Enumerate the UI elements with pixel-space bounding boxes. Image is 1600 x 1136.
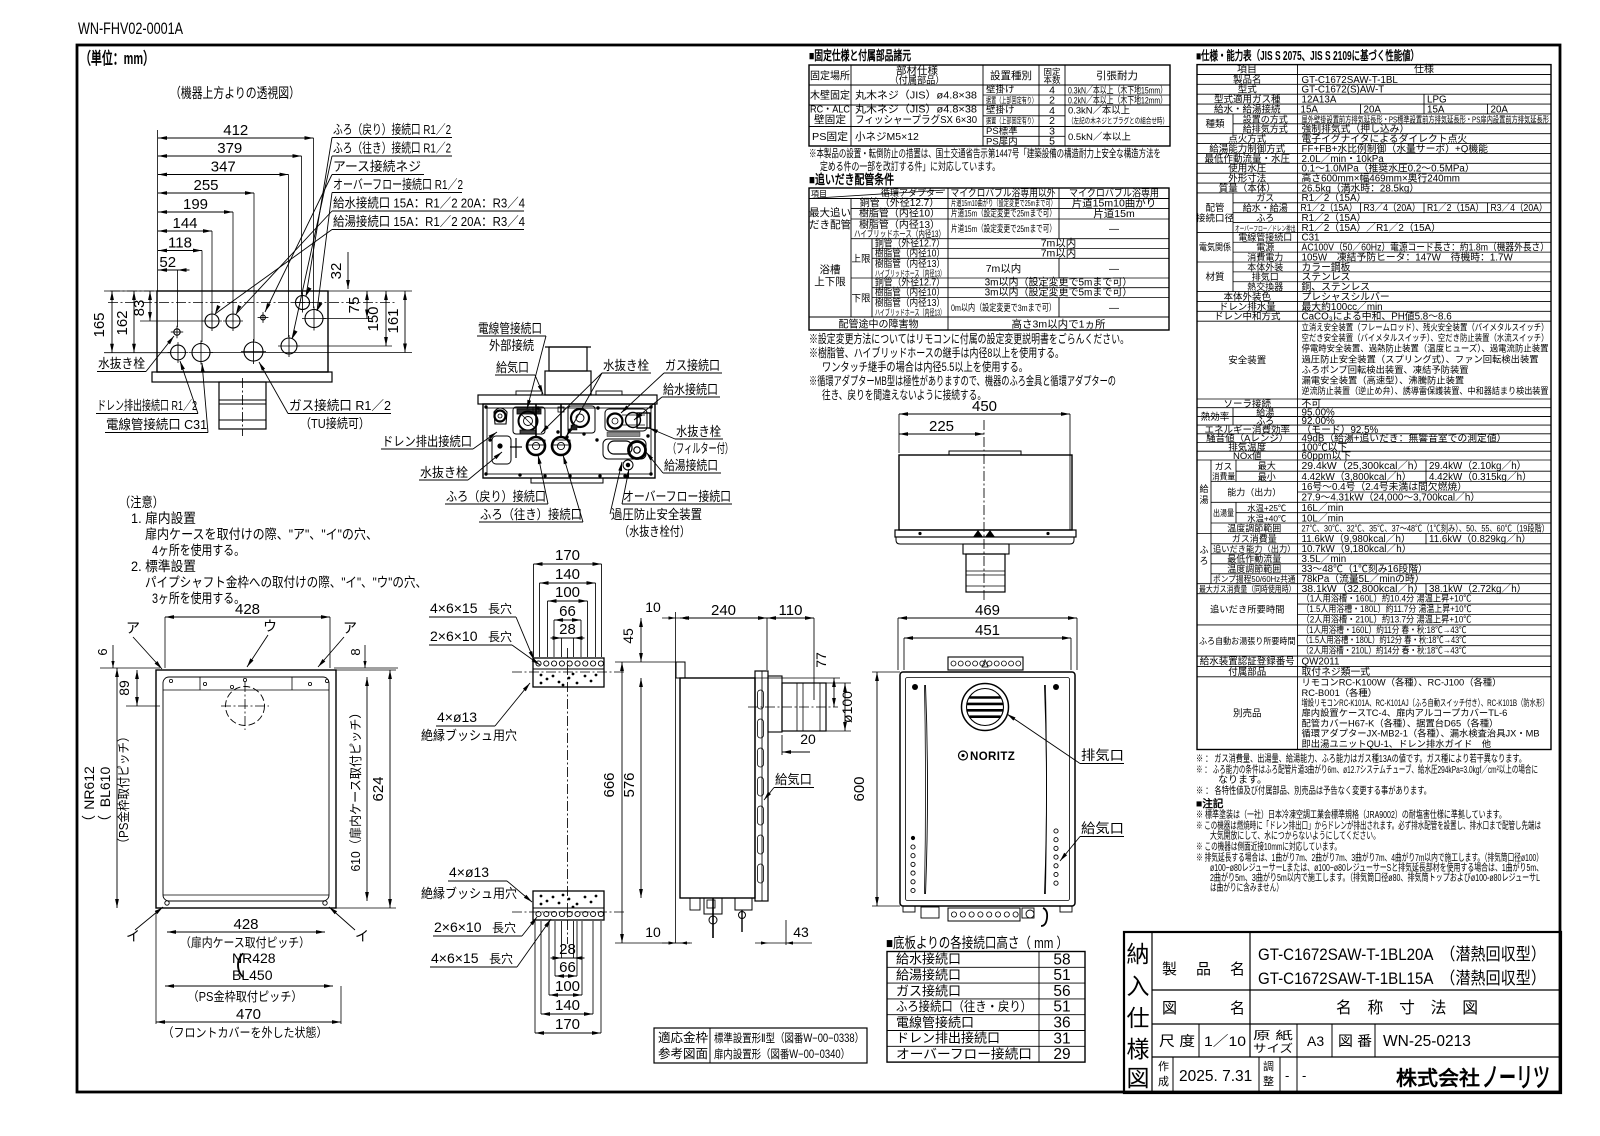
svg-text:上限: 上限 — [851, 254, 871, 265]
svg-text:なります。: なります。 — [1218, 774, 1267, 786]
svg-text:（1人用浴槽・160L）約10.4分 湯温上昇+10℃: （1人用浴槽・160L）約10.4分 湯温上昇+10℃ — [1302, 593, 1472, 604]
svg-text:水抜き栓: 水抜き栓 — [603, 358, 649, 373]
spec block hot water supply — [1197, 459, 1551, 461]
plate bottom dim 28 — [551, 957, 585, 959]
svg-text:尺 度: 尺 度 — [1159, 1033, 1195, 1049]
svg-text:118: 118 — [168, 235, 192, 252]
svg-text:2×6×10: 2×6×10 — [430, 628, 478, 644]
bottom plate slots — [536, 911, 541, 916]
svg-text:ガス接続口: ガス接続口 — [665, 358, 720, 373]
svg-text:出湯量: 出湯量 — [1213, 507, 1234, 518]
plate top dim 66 — [554, 619, 581, 621]
svg-text:ガス: ガス — [1256, 193, 1274, 203]
spec row certification — [1197, 655, 1551, 657]
svg-text:成: 成 — [1158, 1075, 1169, 1088]
svg-text:電線管接続口: 電線管接続口 — [478, 321, 542, 336]
front bottom fittings — [921, 907, 939, 918]
svg-text:参考図面: 参考図面 — [658, 1046, 708, 1061]
svg-text:ドレン排出接続口: ドレン排出接続口 — [896, 1031, 1000, 1046]
svg-text:92.00%: 92.00% — [1302, 416, 1336, 427]
spec block electric — [1197, 231, 1551, 233]
svg-text:ドレン排出接続口: ドレン排出接続口 — [382, 434, 472, 449]
svg-text:消費量: 消費量 — [1212, 470, 1235, 481]
svg-text:オーバーフロー／ドレン排出: オーバーフロー／ドレン排出 — [1235, 224, 1296, 233]
svg-text:※ ： ガス消費量、出湯量、給湯能力、ふろ能力はガス種13A: ※ ： ガス消費量、出湯量、給湯能力、ふろ能力はガス種13Aの値です。ガス種によ… — [1196, 752, 1526, 765]
svg-text:片道15m（設定変更で25mまで可）: 片道15m（設定変更で25mまで可） — [951, 208, 1056, 220]
svg-text:66: 66 — [559, 603, 576, 620]
svg-text:ろ: ろ — [1199, 556, 1208, 566]
svg-text:仕様: 仕様 — [1414, 62, 1434, 75]
top plate slots — [536, 661, 541, 666]
front-open view top strip — [163, 689, 329, 691]
svg-text:ワンタッチ継手の場合は内径5.5以上を使用する。: ワンタッチ継手の場合は内径5.5以上を使用する。 — [822, 359, 1028, 374]
front dim 600 — [876, 672, 878, 906]
piping table grid — [809, 188, 1169, 330]
svg-text:湯: 湯 — [1199, 495, 1208, 505]
svg-text:ア: ア — [343, 620, 357, 636]
svg-text:162: 162 — [114, 310, 131, 335]
svg-text:170: 170 — [555, 1016, 580, 1033]
plan hole drain plug small — [174, 329, 180, 335]
svg-text:長穴: 長穴 — [489, 951, 513, 966]
pictorial comp right assembly top — [605, 409, 647, 431]
svg-text:■底板よりの各接続口高さ（ mm ）: ■底板よりの各接続口高さ（ mm ） — [886, 934, 1068, 952]
svg-text:GT-C1672SAW-T-1BL20A （潜熱回収型）: GT-C1672SAW-T-1BL20A （潜熱回収型） — [1258, 945, 1546, 964]
svg-text:長穴: 長穴 — [488, 629, 512, 644]
title block row drawing name — [1152, 1023, 1561, 1025]
svg-text:4.42kW（3,800kcal／h）: 4.42kW（3,800kcal／h） — [1302, 471, 1412, 483]
svg-text:ハイブリッドホース（内径13）: ハイブリッドホース（内径13） — [854, 228, 945, 239]
svg-text:ノーリツ: ノーリツ — [1482, 1063, 1550, 1093]
pictorial comp mizunuki left — [492, 436, 511, 464]
plan dim reference extension line — [157, 130, 159, 291]
svg-text:ガス: ガス — [1215, 461, 1233, 471]
front-open dim 470 — [156, 1021, 341, 1023]
spec row 給湯能力制御方式 — [1197, 143, 1551, 145]
svg-text:1／10: 1／10 — [1204, 1033, 1246, 1049]
svg-text:4×ø13: 4×ø13 — [437, 709, 477, 725]
svg-text:A3: A3 — [1307, 1033, 1324, 1049]
svg-text:7m以内: 7m以内 — [1041, 246, 1077, 259]
svg-text:オーバーフロー接続口: オーバーフロー接続口 — [896, 1047, 1032, 1062]
front-open view dim 428 top — [165, 616, 330, 618]
svg-text:適応金枠: 適応金枠 — [658, 1030, 709, 1045]
svg-text:消費電力: 消費電力 — [1247, 251, 1283, 262]
svg-text:110: 110 — [779, 602, 803, 619]
spec block bath — [1197, 533, 1551, 535]
plate bottom dim 66 — [555, 975, 577, 977]
svg-text:77: 77 — [813, 652, 829, 668]
svg-text:電線管接続口: 電線管接続口 — [896, 1015, 974, 1030]
spec row connection size — [1197, 103, 1551, 105]
title block row product name — [1152, 989, 1561, 991]
svg-text:小ネジM5×12: 小ネジM5×12 — [855, 131, 919, 143]
svg-text:給気口: 給気口 — [775, 772, 812, 787]
svg-text:水抜き栓: 水抜き栓 — [420, 465, 468, 480]
side view front cover — [755, 671, 768, 901]
svg-text:※樹脂管、ハイブリッドホースの継手は内径8以上を使用する。: ※樹脂管、ハイブリッドホースの継手は内径8以上を使用する。 — [809, 345, 1064, 360]
svg-text:（1.5人用浴槽・180L）約11.7分 湯温上昇+10℃: （1.5人用浴槽・180L）約11.7分 湯温上昇+10℃ — [1302, 603, 1472, 614]
title block vertical label — [1151, 932, 1153, 1093]
svg-text:電気関係: 電気関係 — [1199, 242, 1231, 254]
svg-text:設置の方式: 設置の方式 — [1243, 113, 1288, 124]
svg-text:16L／min: 16L／min — [1302, 502, 1344, 514]
svg-text:空だき安全装置（バイメタルスイッチ）、空だき防止装置（水流ス: 空だき安全装置（バイメタルスイッチ）、空だき防止装置（水流スイッチ） — [1302, 332, 1549, 343]
svg-text:51: 51 — [1053, 967, 1070, 984]
svg-text:（機器上方よりの透視図）: （機器上方よりの透視図） — [170, 85, 300, 101]
svg-text:0m以内（設定変更で3mまで可）: 0m以内（設定変更で3mまで可） — [951, 302, 1056, 314]
svg-text:（単位：mm）: （単位：mm） — [80, 48, 154, 68]
svg-text:強制排気式（押し込み）: 強制排気式（押し込み） — [1302, 122, 1410, 135]
svg-text:（2人用浴槽・210L）約14分 春・秋:18℃→43℃: （2人用浴槽・210L）約14分 春・秋:18℃→43℃ — [1302, 645, 1467, 656]
plan dim 161 — [404, 291, 406, 353]
svg-text:255: 255 — [193, 177, 218, 194]
front body outline — [900, 672, 1075, 906]
svg-text:給水接続口 15A：R1／2 20A：R3／4: 給水接続口 15A：R1／2 20A：R3／4 — [333, 196, 525, 211]
top view top tab — [949, 451, 1021, 455]
svg-text:ふろポンプ回転検出装置、凍結予防装置: ふろポンプ回転検出装置、凍結予防装置 — [1302, 364, 1469, 375]
svg-text:本数: 本数 — [1043, 75, 1061, 85]
svg-text:58: 58 — [1053, 951, 1070, 968]
svg-text:3ヶ所を使用する。: 3ヶ所を使用する。 — [152, 590, 245, 606]
front crease right — [1045, 685, 1047, 894]
svg-text:外部接続: 外部接続 — [489, 338, 534, 353]
svg-text:ハイブリッドホース（内径13）: ハイブリッドホース（内径13） — [875, 308, 945, 318]
svg-text:壁掛け: 壁掛け — [986, 104, 1015, 116]
svg-text:451: 451 — [975, 622, 1000, 639]
svg-text:6: 6 — [95, 648, 110, 655]
svg-text:BL610: BL610 — [97, 767, 113, 808]
svg-text:停電時安全装置、過熱防止装置（温度ヒューズ）、過電流防止装置: 停電時安全装置、過熱防止装置（温度ヒューズ）、過電流防止装置 — [1302, 343, 1549, 354]
svg-text:（注意）: （注意） — [119, 494, 164, 510]
svg-text:循環アダプター: 循環アダプター — [881, 187, 944, 198]
svg-text:イ: イ — [126, 928, 140, 944]
svg-text:（水抜き栓付）: （水抜き栓付） — [619, 524, 690, 539]
svg-text:8: 8 — [348, 648, 363, 655]
svg-text:片道15m（設定変更で25mまで可）: 片道15m（設定変更で25mまで可） — [951, 223, 1056, 235]
svg-text:R1／2（15A）: R1／2（15A） — [1427, 202, 1484, 214]
svg-text:壁掛け: 壁掛け — [986, 84, 1015, 96]
side view body — [680, 678, 755, 898]
svg-text:水抜き栓: 水抜き栓 — [98, 356, 145, 371]
plan right extension lines — [328, 290, 412, 292]
svg-text:図: 図 — [1162, 1000, 1177, 1017]
svg-text:4ヶ所を使用する。: 4ヶ所を使用する。 — [152, 542, 245, 558]
bottom mounting plate — [533, 891, 604, 920]
plan view centerline duct — [242, 378, 244, 436]
svg-text:パイプシャフト金枠への取付けの際、"イ"、"ウ"の穴、: パイプシャフト金枠への取付けの際、"イ"、"ウ"の穴、 — [145, 575, 427, 590]
svg-text:絶縁ブッシュ用穴: 絶縁ブッシュ用穴 — [421, 886, 517, 901]
svg-text:ふろ: ふろ — [1256, 213, 1274, 223]
svg-text:ドレン排出接続口 R1／2: ドレン排出接続口 R1／2 — [97, 398, 197, 413]
svg-text:上下限: 上下限 — [814, 276, 846, 288]
svg-text:WN-25-0213: WN-25-0213 — [1383, 1033, 1471, 1050]
svg-text:29.4kW（25,300kcal／h）: 29.4kW（25,300kcal／h） — [1302, 460, 1425, 472]
connection heights table grid — [887, 952, 1085, 1063]
svg-text:増設リモコンRC-K101A、RC-K101AJ（ふろ自動ス: 増設リモコンRC-K101A、RC-K101AJ（ふろ自動スイッチ付き）、RC-… — [1302, 697, 1549, 708]
side view pipe centerline — [748, 706, 838, 708]
svg-text:は曲がりに含みません）: は曲がりに含みません） — [1210, 881, 1283, 894]
svg-text:-: - — [1302, 1068, 1306, 1083]
svg-text:※設定変更方法についてはリモコンに付属の設定変更説明書をごら: ※設定変更方法についてはリモコンに付属の設定変更説明書をごらんください。 — [809, 331, 1129, 346]
plan hole overflow connection — [305, 310, 323, 328]
svg-text:給気口: 給気口 — [1081, 821, 1124, 836]
svg-text:イ: イ — [355, 928, 369, 944]
svg-text:NR612: NR612 — [81, 766, 97, 810]
svg-text:PS固定: PS固定 — [812, 130, 849, 143]
plate top dim 170 — [534, 563, 602, 565]
svg-text:140: 140 — [555, 566, 580, 583]
plan dim 162 — [133, 291, 135, 353]
svg-text:ふろ（往き）接続口 R1／2: ふろ（往き）接続口 R1／2 — [333, 141, 451, 156]
pictorial exhaust collar — [549, 347, 587, 371]
top view dim 450 — [899, 413, 1070, 415]
svg-text:オーバーフロー接続口 R1／2: オーバーフロー接続口 R1／2 — [333, 177, 463, 192]
front dim 451 — [904, 637, 1071, 639]
svg-text:名: 名 — [1230, 1000, 1245, 1017]
svg-text:WN-FHV02-0001A: WN-FHV02-0001A — [78, 20, 183, 38]
plate top dim 100 — [548, 600, 588, 602]
svg-text:ガス消費量: ガス消費量 — [1232, 533, 1277, 544]
svg-text:給: 給 — [1199, 483, 1208, 494]
svg-text:29: 29 — [1053, 1046, 1070, 1063]
svg-text:だき配管: だき配管 — [809, 218, 851, 231]
svg-text:据置（上部固定有り）: 据置（上部固定有り） — [986, 95, 1037, 105]
svg-text:木壁固定: 木壁固定 — [810, 89, 850, 102]
side dim 110 — [767, 617, 814, 619]
fixing table grid — [809, 65, 1170, 146]
svg-text:最小: 最小 — [1258, 472, 1276, 482]
svg-text:電源: 電源 — [1256, 243, 1274, 253]
piping table header diagonal — [809, 190, 945, 199]
svg-text:絶縁ブッシュ用穴: 絶縁ブッシュ用穴 — [421, 728, 517, 743]
svg-text:NR428: NR428 — [232, 950, 276, 966]
svg-text:給湯接続口 15A：R1／2 20A：R3／4: 給湯接続口 15A：R1／2 20A：R3／4 — [333, 214, 525, 229]
svg-text:給水装置認証登録番号: 給水装置認証登録番号 — [1200, 656, 1295, 668]
svg-text:項目: 項目 — [1237, 63, 1257, 75]
svg-text:R1／2（15A）: R1／2（15A） — [1301, 202, 1358, 214]
svg-text:扉内設置形（図番W−00−0340）: 扉内設置形（図番W−00−0340） — [714, 1047, 850, 1061]
svg-text:600: 600 — [851, 776, 868, 801]
svg-text:ふろ（戻り）接続口 R1／2: ふろ（戻り）接続口 R1／2 — [333, 122, 451, 137]
front exhaust ring — [962, 684, 1009, 731]
svg-text:NORITZ: NORITZ — [970, 751, 1015, 763]
svg-text:0.5kN／本以上: 0.5kN／本以上 — [1068, 131, 1131, 143]
svg-text:作: 作 — [1158, 1060, 1169, 1073]
svg-text:漏電安全装置（高速型）、沸騰防止装置: 漏電安全装置（高速型）、沸騰防止装置 — [1302, 375, 1465, 386]
svg-text:屋外壁掛設置前方排気延長形・PS標準設置前方排気延長形・PS: 屋外壁掛設置前方排気延長形・PS標準設置前方排気延長形・PS扉内設置前方排気延長… — [1302, 114, 1550, 124]
spec rows after safety — [1197, 398, 1551, 400]
svg-text:470: 470 — [236, 1006, 261, 1023]
svg-text:給水接続口: 給水接続口 — [663, 382, 718, 397]
svg-text:樹脂管（内径10）: 樹脂管（内径10） — [875, 286, 945, 299]
svg-text:ふろ: ふろ — [1256, 416, 1274, 426]
svg-text:リモコンRC-K100W（各種）、RC-J100（各種）: リモコンRC-K100W（各種）、RC-J100（各種） — [1302, 677, 1502, 688]
plan dim 118 — [158, 250, 202, 252]
svg-text:熱交換器: 熱交換器 — [1247, 281, 1283, 292]
svg-text:ガス接続口 R1／2: ガス接続口 R1／2 — [289, 398, 391, 413]
svg-text:624: 624 — [370, 776, 387, 801]
pictorial comp bath return bib — [527, 437, 545, 455]
svg-text:別売品: 別売品 — [1233, 708, 1262, 720]
spec row 製品名 — [1197, 73, 1551, 75]
svg-text:調: 調 — [1263, 1059, 1274, 1073]
svg-text:排気口: 排気口 — [1252, 271, 1279, 282]
svg-text:納: 納 — [1127, 941, 1150, 967]
svg-text:PS標準: PS標準 — [986, 125, 1018, 137]
svg-text:電線管接続口: 電線管接続口 — [1238, 232, 1292, 243]
svg-text:名: 名 — [1230, 961, 1245, 978]
front dim 469 — [898, 617, 1077, 619]
svg-text:材質: 材質 — [1205, 271, 1224, 283]
front-open dim line left — [116, 668, 118, 908]
svg-text:立消え安全装置（フレームロッド）、残火安全装置（バイメタルス: 立消え安全装置（フレームロッド）、残火安全装置（バイメタルスイッチ） — [1302, 322, 1549, 333]
side dim 240 — [680, 617, 767, 619]
svg-text:161: 161 — [385, 308, 402, 333]
front-open small holes top — [169, 679, 172, 682]
svg-text:※ ： 各特性値及び付属部品、別売品は予告なく変更する事があ: ※ ： 各特性値及び付属部品、別売品は予告なく変更する事があります。 — [1196, 784, 1431, 797]
top view dim 225 — [899, 433, 984, 435]
svg-text:据置（上部固定有り）: 据置（上部固定有り） — [986, 116, 1037, 126]
svg-text:4×6×15: 4×6×15 — [431, 950, 479, 966]
svg-text:配管カバーH67-K（各種）、据置台D65（各種）: 配管カバーH67-K（各種）、据置台D65（各種） — [1302, 717, 1499, 728]
svg-text:名 称 寸 法 図: 名 称 寸 法 図 — [1336, 999, 1478, 1017]
svg-text:排気口: 排気口 — [1081, 748, 1124, 763]
svg-text:-: - — [1285, 1068, 1289, 1083]
spec block material — [1197, 261, 1551, 263]
svg-text:過圧防止安全装置（スプリング式）、ファン回転検出装置: 過圧防止安全装置（スプリング式）、ファン回転検出装置 — [1302, 353, 1539, 364]
spec block piping size — [1197, 192, 1551, 194]
svg-text:150: 150 — [365, 306, 382, 331]
spec row 外形寸法 — [1197, 172, 1551, 174]
svg-text:2025. 7.31: 2025. 7.31 — [1179, 1068, 1252, 1085]
svg-text:熱効率: 熱効率 — [1201, 411, 1230, 423]
svg-text:片道15m: 片道15m — [1093, 207, 1135, 220]
svg-text:140: 140 — [555, 997, 580, 1014]
pictorial comp drain pan — [494, 408, 507, 424]
svg-text:4×ø13: 4×ø13 — [449, 864, 489, 880]
plate bottom dim 100 — [549, 994, 582, 996]
svg-text:給湯接続口: 給湯接続口 — [896, 968, 961, 983]
svg-text:引張耐力: 引張耐力 — [1096, 69, 1138, 82]
svg-text:循環アダプターJX-MB2-1（各種）、漏水検査治具JX・M: 循環アダプターJX-MB2-1（各種）、漏水検査治具JX・MB — [1302, 728, 1540, 739]
svg-text:高さ3m以内で1ヵ所: 高さ3m以内で1ヵ所 — [1012, 318, 1106, 331]
top view flange marks — [973, 530, 983, 537]
pictorial comp bath out bib — [552, 437, 570, 455]
spec block safety devices — [1197, 320, 1551, 322]
svg-text:27.9〜4.31kW（24,000〜3,700kcal／h: 27.9〜4.31kW（24,000〜3,700kcal／h） — [1302, 492, 1481, 504]
pictorial comp right assembly bottom — [603, 439, 646, 459]
pictorial comp cross — [515, 438, 517, 458]
svg-text:（PS金枠取付ピッチ）: （PS金枠取付ピッチ） — [188, 989, 303, 1004]
svg-text:樹脂管（内径10）: 樹脂管（内径10） — [875, 246, 945, 259]
svg-text:―: ― — [1109, 264, 1119, 275]
pictorial bolt dots — [484, 405, 487, 408]
svg-text:定める件の一部を改訂する件」に対応しています。: 定める件の一部を改訂する件」に対応しています。 — [820, 159, 1000, 173]
spec block reheat time — [1197, 593, 1551, 595]
svg-text:BL450: BL450 — [232, 967, 273, 983]
side view bottom fittings — [690, 898, 700, 910]
plate bottom dim 170 — [535, 1032, 601, 1034]
spec rows simple2 — [1197, 291, 1551, 293]
svg-text:水温+25℃: 水温+25℃ — [1247, 503, 1286, 513]
svg-text:100: 100 — [555, 584, 580, 601]
svg-text:（PS金枠取付ピッチ）: （PS金枠取付ピッチ） — [116, 731, 131, 850]
top view duct — [966, 554, 1005, 592]
svg-text:■固定仕様と付属部品諸元: ■固定仕様と付属部品諸元 — [809, 48, 911, 63]
svg-text:往き、戻りを間違えないように接続する。: 往き、戻りを間違えないように接続する。 — [822, 387, 986, 402]
svg-text:給排気方式: 給排気方式 — [1243, 123, 1288, 134]
svg-text:170: 170 — [555, 547, 580, 564]
side view exhaust pipe — [782, 683, 826, 731]
svg-text:最大ガス消費量（同時使用時）: 最大ガス消費量（同時使用時） — [1199, 584, 1296, 594]
svg-text:36: 36 — [1053, 1015, 1070, 1032]
svg-text:様: 様 — [1127, 1036, 1150, 1062]
svg-text:56: 56 — [1053, 983, 1070, 1000]
svg-text:ふろ（往き）接続口: ふろ（往き）接続口 — [480, 507, 582, 522]
plan hole bath out connection — [281, 338, 297, 354]
spec table header divider — [1197, 73, 1551, 75]
svg-text:51: 51 — [1053, 999, 1070, 1016]
plate centerline vertical — [567, 648, 569, 944]
front-open view outer rect — [156, 670, 336, 908]
svg-text:原 紙: 原 紙 — [1253, 1028, 1293, 1042]
svg-text:扉内設置ケースTC-4、扉内アルコープカバーTL-6: 扉内設置ケースTC-4、扉内アルコープカバーTL-6 — [1302, 707, 1508, 718]
svg-text:能力（出力）: 能力（出力） — [1227, 486, 1281, 497]
svg-text:CaCO₃による中和、PH値5.8〜8.6: CaCO₃による中和、PH値5.8〜8.6 — [1302, 310, 1453, 323]
svg-text:（フロントカバーを外した状態）: （フロントカバーを外した状態） — [163, 1025, 328, 1040]
pictorial bottom tab — [531, 478, 603, 483]
svg-text:温度調節範囲: 温度調節範囲 — [1227, 523, 1281, 534]
top plate centerline horizontal — [512, 671, 625, 673]
svg-text:RC-B001（各種）: RC-B001（各種） — [1302, 687, 1377, 698]
svg-text:199: 199 — [183, 196, 208, 213]
svg-text:仕: 仕 — [1127, 1005, 1150, 1031]
plan dim 379 — [158, 155, 302, 157]
plan dim 52 — [158, 269, 190, 271]
pictorial comp conduit box — [513, 407, 545, 434]
svg-text:下限: 下限 — [851, 294, 871, 305]
svg-text:項目: 項目 — [811, 190, 827, 199]
svg-text:610（扉内ケース取付ピッチ）: 610（扉内ケース取付ピッチ） — [349, 707, 363, 872]
svg-text:■追いだき配管条件: ■追いだき配管条件 — [809, 172, 894, 187]
svg-text:■仕様・能力表（JIS S 2075、JIS S 2109に: ■仕様・能力表（JIS S 2075、JIS S 2109に基づく性能値） — [1196, 48, 1419, 63]
svg-text:取付ネジ類一式: 取付ネジ類一式 — [1302, 665, 1371, 678]
svg-text:52: 52 — [159, 254, 176, 271]
svg-text:丸木ネジ（JIS）ø4.8×38: 丸木ネジ（JIS）ø4.8×38 — [855, 89, 977, 102]
plan dim 75 — [366, 291, 368, 319]
svg-text:品: 品 — [1196, 961, 1211, 978]
svg-text:29.4kW（2.10kg／h）: 29.4kW（2.10kg／h） — [1429, 460, 1526, 472]
svg-text:（: （ — [97, 815, 113, 829]
front-open dim line NR428 — [165, 985, 333, 987]
svg-text:製: 製 — [1162, 961, 1177, 978]
plan view bottom flange — [152, 372, 332, 382]
svg-text:ふ: ふ — [1199, 545, 1208, 555]
svg-text:サイズ: サイズ — [1253, 1041, 1293, 1055]
plan dim 199 — [158, 211, 233, 213]
top view duct collar — [963, 544, 1009, 554]
svg-text:配管: 配管 — [1205, 202, 1224, 214]
svg-text:※本製品の設置・転倒防止の措置は、国土交通省告示第1447号: ※本製品の設置・転倒防止の措置は、国土交通省告示第1447号「建築設備の構造耐力… — [809, 146, 1161, 160]
top view body — [899, 455, 1072, 530]
svg-text:10L／min: 10L／min — [1302, 512, 1344, 524]
spec block optional parts — [1197, 676, 1551, 678]
svg-text:ガス接続口: ガス接続口 — [896, 983, 961, 998]
pictorial flange notches — [516, 391, 542, 395]
top view centerline — [983, 420, 985, 600]
svg-text:225: 225 — [929, 418, 954, 435]
